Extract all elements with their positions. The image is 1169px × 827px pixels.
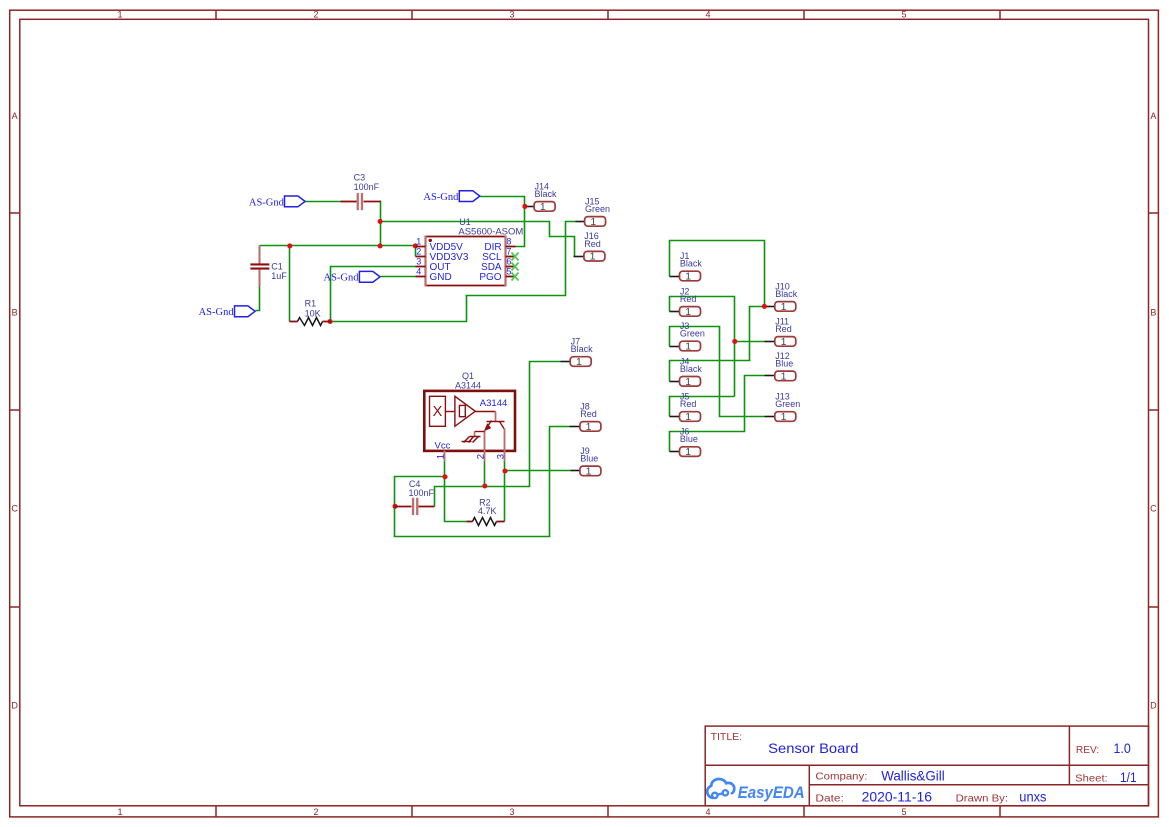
- svg-text:Red: Red: [584, 239, 601, 249]
- svg-text:1: 1: [436, 454, 447, 459]
- svg-text:1/1: 1/1: [1120, 769, 1137, 785]
- svg-text:Black: Black: [680, 364, 703, 374]
- connector J5 Red: [680, 392, 701, 424]
- wire J4 to J10 junction: [670, 307, 765, 382]
- wire J9 lead: [571, 470, 580, 472]
- svg-text:5: 5: [901, 807, 906, 817]
- svg-text:2: 2: [313, 807, 318, 817]
- svg-text:1: 1: [685, 376, 691, 388]
- svg-text:1: 1: [540, 201, 546, 213]
- wire J16 lead: [574, 256, 584, 258]
- wire pin3 to R2 right: [504, 471, 506, 522]
- connector J11 Red: [775, 316, 796, 348]
- junction Q1 pin2: [482, 483, 487, 488]
- Q1 pin 3: [496, 451, 507, 462]
- svg-text:10K: 10K: [305, 308, 321, 318]
- U1 pin 6 SDA with no-connect: [481, 257, 518, 273]
- connector J13 Green: [775, 392, 800, 424]
- svg-text:1: 1: [781, 301, 787, 313]
- wire C4 left to bottom rail to J8: [395, 427, 570, 537]
- svg-text:Green: Green: [680, 329, 705, 339]
- svg-text:1: 1: [586, 465, 592, 477]
- wire J2 riser: [670, 297, 735, 397]
- svg-text:1: 1: [117, 10, 122, 20]
- svg-text:A3144: A3144: [455, 381, 481, 391]
- U1 pin 7 SCL with no-connect: [482, 247, 518, 263]
- svg-text:Red: Red: [680, 294, 697, 304]
- connector J8 Red: [580, 401, 601, 433]
- connector J3 Green: [680, 321, 705, 353]
- U1 pin 4 GND: [416, 267, 452, 283]
- svg-text:3: 3: [416, 257, 421, 267]
- connector J6 Blue: [680, 427, 701, 459]
- svg-text:AS-Gnd: AS-Gnd: [423, 192, 459, 203]
- junction C1/VDD rail: [287, 243, 292, 248]
- U1 pin 8 DIR: [484, 237, 515, 253]
- connector J16 Red: [584, 231, 605, 263]
- capacitor C1: [250, 246, 287, 287]
- svg-text:4: 4: [705, 10, 710, 20]
- wire J5 lead: [670, 416, 680, 418]
- connector J7 Black: [570, 337, 593, 369]
- svg-text:B: B: [1150, 308, 1156, 318]
- svg-text:Company:: Company:: [815, 771, 867, 783]
- net flag AS-Gnd (U1 GND): [324, 271, 381, 283]
- title block: [705, 726, 1148, 806]
- net flag AS-Gnd (C1 bottom): [199, 306, 255, 318]
- junction Q1 pin1/Vcc: [442, 474, 447, 479]
- svg-text:Blue: Blue: [680, 434, 698, 444]
- junction J11 net: [732, 339, 737, 344]
- svg-text:1uF: 1uF: [271, 271, 287, 281]
- svg-text:Black: Black: [680, 259, 703, 269]
- wire VDD5V rail: [260, 245, 416, 247]
- svg-text:Wallis&Gill: Wallis&Gill: [881, 768, 945, 784]
- svg-text:TITLE:: TITLE:: [711, 731, 743, 743]
- svg-text:100nF: 100nF: [354, 182, 380, 192]
- svg-text:C1: C1: [271, 261, 283, 271]
- wire Q1 pin3 down: [504, 461, 506, 471]
- svg-text:1: 1: [685, 306, 691, 318]
- svg-text:PGO: PGO: [479, 272, 501, 283]
- svg-text:1: 1: [781, 411, 787, 423]
- svg-text:C3: C3: [354, 172, 366, 182]
- wire C4 right to pin2 to J7 riser: [435, 362, 561, 507]
- connector J1 Black: [680, 251, 703, 283]
- wire J11 branch: [735, 341, 765, 343]
- svg-text:B: B: [12, 308, 18, 318]
- wire C3 right vertical to VDD rail: [380, 201, 382, 246]
- capacitor C4: [395, 479, 435, 515]
- svg-text:1: 1: [590, 251, 596, 263]
- wire pin2 branch: [415, 246, 417, 257]
- wire J15 lead: [576, 221, 585, 223]
- svg-text:2: 2: [416, 247, 421, 257]
- wire J10 lead: [765, 306, 775, 308]
- svg-text:Black: Black: [571, 344, 594, 354]
- junction VDD rail/C3 branch: [378, 243, 383, 248]
- junction J10 net: [762, 304, 767, 309]
- svg-text:1: 1: [586, 421, 592, 433]
- capacitor C3: [341, 172, 381, 210]
- transistor Q1 A3144 body: [424, 371, 515, 452]
- svg-text:D: D: [1150, 701, 1157, 711]
- svg-text:100nF: 100nF: [409, 488, 435, 498]
- net flag AS-Gnd (DIR/J14): [423, 191, 480, 203]
- svg-text:7: 7: [506, 247, 511, 257]
- resistor R2: [467, 497, 505, 525]
- svg-text:1: 1: [685, 446, 691, 458]
- junction J14/AS-Gnd/DIR: [522, 204, 527, 209]
- U1 pin 2 VDD3V3: [416, 247, 469, 263]
- svg-text:A3144: A3144: [480, 398, 507, 409]
- svg-text:4: 4: [416, 267, 421, 277]
- svg-text:AS5600-ASOM: AS5600-ASOM: [458, 226, 523, 236]
- wire J14 lead: [525, 206, 535, 208]
- junction pin1/pin2: [413, 243, 418, 248]
- svg-text:Blue: Blue: [775, 359, 793, 369]
- svg-text:Black: Black: [535, 189, 558, 199]
- svg-text:A: A: [1150, 111, 1156, 121]
- wire J2 lead: [670, 311, 680, 313]
- connector J12 Blue: [775, 351, 796, 383]
- wire J1 to J10 net: [670, 241, 765, 307]
- svg-text:1: 1: [685, 411, 691, 423]
- wire J8 lead: [570, 426, 580, 428]
- connector J4 Black: [680, 356, 703, 388]
- connector J2 Red: [680, 286, 701, 318]
- svg-text:3: 3: [509, 10, 514, 20]
- connector J14 Black: [534, 181, 557, 213]
- svg-text:X: X: [433, 404, 443, 420]
- wire J15 to OUT/R1 net: [331, 222, 576, 322]
- wire J5 riser: [670, 397, 735, 417]
- svg-text:unxs: unxs: [1019, 788, 1046, 804]
- resistor R1: [290, 299, 331, 326]
- wire J1 lead: [670, 276, 680, 278]
- Q1 pin 2: [475, 451, 486, 462]
- svg-text:Date:: Date:: [815, 792, 844, 804]
- wire pin3 to J9: [505, 470, 571, 472]
- op-amp U1 AS5600-ASOM body: [425, 217, 524, 286]
- U1 pin 5 PGO with no-connect: [479, 267, 518, 283]
- wire net to J16: [381, 222, 575, 257]
- svg-text:Green: Green: [775, 399, 800, 409]
- wire OUT pin3 to R1 right: [331, 267, 416, 322]
- svg-text:Sensor Board: Sensor Board: [768, 740, 858, 756]
- connector J15 Green: [585, 196, 610, 228]
- svg-text:Q1: Q1: [462, 371, 474, 381]
- wire C1 bottom to AS-Gnd: [256, 287, 260, 311]
- svg-text:AS-Gnd: AS-Gnd: [324, 273, 360, 284]
- wire C1 top vertical to R1: [289, 246, 291, 322]
- wire J7 lead: [561, 361, 571, 363]
- U1 pin 3 OUT: [416, 257, 451, 273]
- svg-text:AS-Gnd: AS-Gnd: [199, 307, 235, 318]
- svg-text:2: 2: [313, 10, 318, 20]
- wire J4 lead: [670, 381, 680, 383]
- svg-text:Red: Red: [680, 399, 697, 409]
- svg-text:C: C: [11, 504, 18, 514]
- svg-text:1: 1: [590, 216, 596, 228]
- svg-text:3: 3: [509, 807, 514, 817]
- connector J9 Blue: [580, 446, 601, 478]
- svg-text:R1: R1: [305, 299, 317, 309]
- wire AS-Gnd to C3 left: [305, 201, 341, 203]
- svg-text:REV:: REV:: [1076, 744, 1099, 756]
- svg-text:2020-11-16: 2020-11-16: [862, 789, 933, 805]
- wire J3 to J13: [670, 327, 765, 417]
- wire J12 lead: [765, 375, 775, 377]
- svg-text:Red: Red: [775, 324, 792, 334]
- svg-text:Red: Red: [580, 409, 597, 419]
- svg-text:5: 5: [506, 267, 511, 277]
- svg-text:1: 1: [685, 271, 691, 283]
- svg-text:Sheet:: Sheet:: [1075, 773, 1108, 785]
- wire DIR pin8 to AS-Gnd and J14: [481, 197, 525, 247]
- svg-text:GND: GND: [430, 272, 452, 283]
- svg-text:5: 5: [901, 10, 906, 20]
- junction Q1 pin3: [502, 468, 507, 473]
- wire J13 lead: [765, 416, 775, 418]
- svg-text:Drawn By:: Drawn By:: [956, 792, 1008, 804]
- svg-text:EasyEDA: EasyEDA: [738, 784, 805, 802]
- svg-text:8: 8: [506, 237, 511, 247]
- junction C3 right/J16 net: [378, 219, 383, 224]
- svg-text:4.7K: 4.7K: [478, 506, 497, 516]
- net flag AS-Gnd (C3 left): [249, 196, 305, 208]
- EasyEDA logo: [707, 779, 805, 802]
- svg-text:Green: Green: [585, 204, 610, 214]
- svg-text:A: A: [12, 111, 18, 121]
- svg-text:1: 1: [117, 807, 122, 817]
- wire AS-Gnd to GND pin4: [381, 276, 416, 278]
- wire J6 to J12: [670, 376, 765, 452]
- wire J6 lead: [670, 451, 680, 453]
- svg-text:1: 1: [685, 341, 691, 353]
- svg-text:2: 2: [475, 454, 486, 459]
- svg-text:Vcc: Vcc: [435, 441, 451, 452]
- svg-text:C: C: [1150, 504, 1157, 514]
- junction C4 left: [392, 504, 397, 509]
- junction R1 right/OUT: [328, 319, 333, 324]
- wire Q1 pin2 down: [484, 461, 486, 487]
- svg-text:1: 1: [781, 370, 787, 382]
- wire J3 lead: [670, 346, 680, 348]
- Q1 pin 1: [436, 451, 447, 462]
- U1 pin 1 VDD5V: [416, 237, 464, 253]
- svg-text:AS-Gnd: AS-Gnd: [249, 197, 285, 208]
- svg-text:Blue: Blue: [580, 454, 598, 464]
- svg-text:6: 6: [506, 257, 511, 267]
- svg-text:Black: Black: [775, 289, 798, 299]
- svg-text:1: 1: [576, 356, 582, 368]
- svg-text:1: 1: [416, 237, 421, 247]
- svg-text:4: 4: [705, 807, 710, 817]
- svg-text:3: 3: [496, 454, 507, 459]
- wire J11 lead: [765, 341, 775, 343]
- wire Q1 Vcc net: [395, 461, 445, 507]
- svg-text:1: 1: [781, 336, 787, 348]
- wire Vcc to R2 left: [445, 477, 467, 522]
- svg-text:D: D: [11, 701, 18, 711]
- connector J10 Black: [775, 281, 798, 313]
- svg-text:1.0: 1.0: [1114, 740, 1131, 756]
